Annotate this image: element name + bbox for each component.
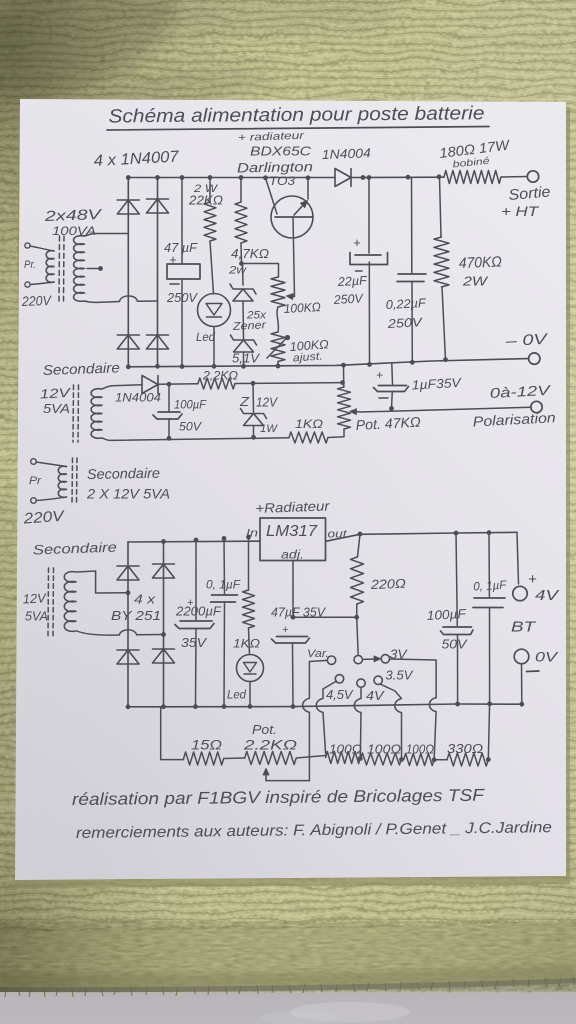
svg-text:Secondaire: Secondaire <box>87 465 160 482</box>
capacitor 47µF 250V <box>167 264 200 279</box>
resistor 15Ω <box>184 752 224 765</box>
label "25x" <box>246 310 267 322</box>
wire primary top lead <box>30 246 54 251</box>
junction rail-C bridge right <box>161 539 166 544</box>
resistor 100Ω #1 <box>326 752 361 764</box>
svg-text:1N4004: 1N4004 <box>322 145 371 162</box>
svg-text:0, 1µF: 0, 1µF <box>473 578 507 594</box>
wire bridge right leg <box>157 178 159 367</box>
resistor 100Ω #2 <box>360 753 401 765</box>
transformer T3 core <box>72 458 77 505</box>
svg-text:LM317: LM317 <box>266 523 318 540</box>
LED indicator <box>198 294 231 327</box>
svg-text:+: + <box>282 624 289 636</box>
svg-text:0, 1µF: 0, 1µF <box>206 578 241 592</box>
svg-text:0,22µF: 0,22µF <box>385 296 427 312</box>
wire 0,22uF bottom lead <box>411 282 413 363</box>
wire zener chain bottom <box>243 353 245 367</box>
wire 15Ω to pot <box>224 757 245 760</box>
junction LED2 bottom <box>248 704 253 709</box>
switch contact 4V <box>357 679 365 687</box>
junction 0,1uF-a bottom <box>222 704 227 709</box>
svg-text:1KΩ: 1KΩ <box>295 417 323 431</box>
diode D9 BY251 <box>153 649 175 663</box>
svg-text:12V: 12V <box>22 590 47 606</box>
svg-text:Pot.: Pot. <box>252 722 277 737</box>
label "12V" zener <box>256 395 278 410</box>
label "2w" <box>228 265 247 277</box>
resistor 22KΩ 2W <box>204 202 216 241</box>
svg-text:47µF 35V: 47µF 35V <box>271 606 327 620</box>
label "+Radiateur" <box>255 498 330 516</box>
svg-text:Secondaire: Secondaire <box>43 359 121 378</box>
label "220Ω" <box>369 576 406 592</box>
regulator U1 LM317 <box>260 518 326 561</box>
svg-text:100µF: 100µF <box>174 398 207 412</box>
label "35V" <box>181 635 207 650</box>
capacitor 0,22µF 250V <box>397 274 426 282</box>
label "15Ω" <box>191 737 222 753</box>
label "50V" middle <box>179 420 202 434</box>
junction 470K top <box>437 174 442 179</box>
svg-text:5VA: 5VA <box>43 401 70 416</box>
svg-text:220Ω: 220Ω <box>369 576 406 592</box>
label "5VA" T2 <box>43 401 70 416</box>
svg-text:+: + <box>528 571 537 588</box>
zener Z 12V 1W <box>241 409 267 426</box>
svg-text:330Ω: 330Ω <box>447 741 483 756</box>
junction bridge2 right mid <box>161 632 166 637</box>
wire 100uF-b top lead <box>456 533 457 627</box>
wire rail to 15Ω <box>161 707 184 760</box>
junction after diode <box>361 175 366 180</box>
label "100µF" middle <box>174 398 207 412</box>
label "Led" bottom <box>227 688 246 702</box>
terminal -0V <box>529 353 540 364</box>
label "1µF35V" <box>411 375 462 393</box>
junction 100uF-b bottom <box>455 702 460 707</box>
wire trimmer bottom <box>277 362 279 367</box>
junction 47uF top <box>180 175 185 180</box>
wire secondary top to bridge <box>85 234 129 237</box>
wire 4,5V tap <box>316 681 336 754</box>
label "47µF 35V" b <box>271 606 327 620</box>
label "100µF" b <box>426 606 467 623</box>
svg-text:250V: 250V <box>332 291 364 307</box>
transformer T1 secondary winding <box>74 236 85 302</box>
label "1KΩ" middle <box>295 417 323 431</box>
label "+" 47uF-b <box>282 624 289 636</box>
svg-text:4 x: 4 x <box>134 592 156 607</box>
svg-text:+Radiateur: +Radiateur <box>255 498 330 516</box>
junction rail-C 0,1uF <box>222 536 227 541</box>
svg-text:100VA: 100VA <box>52 226 96 238</box>
label "Var." <box>307 648 329 660</box>
junction bridge left top <box>126 175 131 180</box>
label "BT" <box>511 619 537 636</box>
junction chain 1 <box>358 756 363 761</box>
capacitor 47µF 35V b <box>272 637 310 644</box>
junction 4,7K / zener / pot <box>239 261 244 266</box>
wire 47uF-b bottom lead <box>292 643 295 707</box>
label "22KΩ" <box>188 194 224 208</box>
label "Secondaire" bottom <box>33 540 117 558</box>
terminal primary top <box>25 243 30 248</box>
wire 3.5V tap <box>380 684 402 760</box>
transformer T2 core <box>73 385 79 442</box>
svg-text:5,1V: 5,1V <box>232 351 260 366</box>
junction 0,22uF bottom <box>410 360 415 365</box>
svg-text:22KΩ: 22KΩ <box>188 194 224 208</box>
label "100KΩ" pot <box>283 300 321 316</box>
diode D5 1N4004 middle <box>142 376 158 394</box>
LED2 indicator <box>237 655 264 682</box>
transistor Q1 BDX65C <box>271 178 313 238</box>
label footer line 1 <box>72 786 486 809</box>
wire bridge2 right leg <box>163 542 165 707</box>
svg-text:220V: 220V <box>21 293 53 309</box>
terminal +4V <box>513 586 527 600</box>
resistor 2,2KΩ <box>198 378 235 389</box>
label "+ radiateur" <box>238 130 305 144</box>
wire center tap <box>87 268 99 270</box>
label "0à-12V" <box>489 382 552 401</box>
terminal primary bottom <box>25 282 30 287</box>
svg-text:2200µF: 2200µF <box>175 604 222 619</box>
capacitor 0,1µF b <box>473 598 505 608</box>
resistor 330Ω <box>447 753 488 766</box>
svg-text:2W: 2W <box>462 274 489 289</box>
table light streaks <box>290 1002 410 1022</box>
transformer T4 secondary winding <box>64 572 76 632</box>
junction pot47K top <box>341 363 346 368</box>
svg-text:250V: 250V <box>386 315 424 331</box>
junction bridge left bottom <box>126 364 131 369</box>
wire bottom rail <box>128 704 522 707</box>
label "2.2KΩ" <box>243 737 298 753</box>
label "250V" 22uF <box>332 291 364 307</box>
svg-text:2w: 2w <box>228 265 247 277</box>
transistor Q1 BDX65C base wire <box>266 178 278 214</box>
svg-text:3.5V: 3.5V <box>385 668 413 683</box>
capacitor 22µF 250V <box>350 253 388 272</box>
svg-text:50V: 50V <box>179 420 202 434</box>
wire switch common lead <box>357 617 359 655</box>
wire 0,22uF top lead <box>411 177 413 273</box>
potentiometer 47KΩ <box>338 387 351 429</box>
label "12V" T4 <box>22 590 47 606</box>
label "+ HT" <box>501 203 540 219</box>
svg-text:– 0V: – 0V <box>504 331 550 350</box>
label "Darlington" <box>237 159 313 175</box>
junction 22uF top <box>367 175 372 180</box>
wire 2200uF bottom lead <box>195 629 198 707</box>
label "12V" T2 <box>39 385 71 402</box>
wire T4 bottom lead (hop) <box>77 630 164 635</box>
label "100Ω" 3 <box>406 743 434 757</box>
label "Pr" T3 <box>29 475 42 487</box>
transformer T3 primary winding <box>58 466 66 497</box>
svg-text:Z: Z <box>239 394 250 409</box>
wire 1K top lead <box>248 537 250 590</box>
wire T2 bottom lead <box>102 438 289 441</box>
label "Pr." <box>24 259 36 271</box>
terminal 0V BT <box>514 649 529 664</box>
switch contact 3.5V <box>374 676 382 684</box>
label footer line 2 <box>76 819 553 842</box>
wire after D5 <box>158 383 198 386</box>
transformer T1 primary winding <box>46 251 54 283</box>
terminal T3 primary bottom <box>31 498 37 504</box>
svg-text:BDX65C: BDX65C <box>250 144 312 159</box>
label "1N4004" <box>322 145 371 162</box>
capacitor 100µF 50V middle <box>153 412 182 419</box>
junction 220R bottom <box>354 615 359 620</box>
wire 1uF bottom lead <box>391 392 394 409</box>
resistor 1KΩ middle <box>289 432 328 443</box>
trimmer 100KΩ ajust. <box>271 332 285 362</box>
wiper arrow pot47K <box>350 409 361 415</box>
label "4,5V" <box>326 687 354 702</box>
svg-text:Zener: Zener <box>231 319 267 333</box>
svg-text:0V: 0V <box>535 649 559 665</box>
junction zener bottom <box>241 364 246 369</box>
capacitor 0,1µF a <box>211 595 238 602</box>
wire 220R bottom lead <box>356 604 358 617</box>
wire 100uF bottom lead <box>168 419 170 438</box>
label "2W" 470K <box>462 274 489 289</box>
junction -12V node at pot <box>340 380 345 385</box>
label "Polarisation" <box>472 409 556 429</box>
wire zener Z top lead <box>252 383 255 412</box>
label "In" <box>246 528 258 540</box>
junction zener Z top <box>251 381 256 386</box>
wire rail to LM317 In <box>128 540 260 543</box>
diode D4 1N4007 <box>147 335 169 349</box>
label "- 0V" <box>504 331 550 350</box>
junction bridge2 left mid <box>126 590 131 595</box>
svg-text:12V: 12V <box>256 395 278 410</box>
junction 0,1uF-b top <box>487 530 492 535</box>
junction adj node <box>291 615 296 620</box>
wire 1K to LED <box>249 628 250 655</box>
wire Q1 emitter <box>287 217 295 299</box>
terminal polarisation <box>531 401 542 412</box>
towel wrinkle shadows <box>0 0 400 790</box>
svg-text:4,7KΩ: 4,7KΩ <box>231 246 269 261</box>
svg-text:4V: 4V <box>535 587 560 604</box>
svg-text:100Ω: 100Ω <box>367 743 402 757</box>
label "1KΩ" bottom <box>233 637 260 651</box>
terminal Sortie +HT <box>527 171 538 182</box>
wire 22uF bottom lead <box>368 262 370 364</box>
resistor 180Ω <box>444 171 501 184</box>
transformer T4 core <box>48 568 54 638</box>
label "BDX65C" <box>250 144 312 159</box>
label "bobiné" <box>452 156 490 171</box>
junction bridge2 right bottom <box>161 704 166 709</box>
junction 100uF bottom <box>167 436 172 441</box>
junction center tap <box>98 266 103 271</box>
junction rail-C 2200uF <box>194 538 199 543</box>
svg-text:+: + <box>376 368 383 382</box>
junction trimmer bottom <box>276 364 281 369</box>
wire 0V rail <box>128 359 528 367</box>
label "0V" terminal <box>535 649 559 665</box>
svg-text:Secondaire: Secondaire <box>33 540 117 558</box>
wire secondary bottom to bridge (hop over left leg) <box>85 296 158 303</box>
wire to +4V terminal <box>517 532 519 584</box>
wire pot47K top lead <box>343 365 345 387</box>
label "1N4004" middle <box>115 391 161 405</box>
junction chain 3 <box>432 757 437 762</box>
junction 1uF bottom <box>389 406 394 411</box>
svg-text:2x48V: 2x48V <box>43 207 103 225</box>
resistor 470KΩ 2W <box>434 237 449 287</box>
diode D3 1N4007 <box>117 335 139 349</box>
junction 4,7K top <box>239 175 244 180</box>
diode D1 1N4007 <box>117 200 139 214</box>
junction 0,22uF top <box>406 175 411 180</box>
capacitor 1µF 35V <box>374 386 409 392</box>
svg-text:adj.: adj. <box>281 548 304 562</box>
resistor 220Ω <box>351 557 364 604</box>
wire polarisation <box>361 407 531 412</box>
label "4V" contact <box>366 688 385 703</box>
wire top rail <box>128 176 444 178</box>
junction 470K bottom <box>443 357 448 362</box>
label "TO3" <box>269 176 296 188</box>
switch common contact <box>354 655 362 663</box>
diode D7 BY251 <box>153 564 175 578</box>
svg-text:2 X 12V 5VA: 2 X 12V 5VA <box>86 486 170 502</box>
svg-text:22µF: 22µF <box>336 273 368 289</box>
label "220V" T3 <box>22 508 66 528</box>
junction bridge right bottom <box>155 364 160 369</box>
wire 4V tap <box>354 687 361 759</box>
transformer T2 secondary winding <box>91 389 102 439</box>
svg-text:4,5V: 4,5V <box>326 687 354 702</box>
junction rail-C 1K <box>246 535 251 540</box>
label "2x48V" <box>43 207 103 225</box>
label "47 µF" <box>164 240 198 255</box>
wire 0,1uF-b bottom lead <box>489 608 491 704</box>
svg-text:4V: 4V <box>366 688 385 703</box>
junction bridge2 left bottom <box>126 704 131 709</box>
label "250V" 0,22uF <box>386 315 424 331</box>
label "50V" b <box>442 638 469 652</box>
label "100Ω" 1 <box>329 743 363 757</box>
wire Var to wiper <box>303 660 328 780</box>
wire LED bottom <box>213 327 215 367</box>
label "100KΩ" ajust <box>289 337 329 354</box>
wire 22K to LED <box>210 241 214 294</box>
label "2200µF" <box>175 604 222 619</box>
label "Zener" <box>231 319 267 333</box>
svg-text:Pr.: Pr. <box>24 259 36 271</box>
wire 4,7K top lead <box>240 178 242 203</box>
wire 2200uF top lead <box>195 540 197 621</box>
diode 1N4004 series <box>335 169 351 187</box>
switch contact 4,5V <box>335 675 343 683</box>
label title "Schéma alimentation pour poste batterie" <box>107 103 489 130</box>
svg-text:220V: 220V <box>22 508 66 528</box>
label "Secondaire" middle <box>43 359 121 378</box>
diode D6 BY251 <box>117 566 139 580</box>
wire T3 bottom lead <box>36 497 67 501</box>
svg-text:1µF35V: 1µF35V <box>411 375 462 393</box>
label "Pot. 47KΩ" <box>355 414 421 433</box>
svg-text:Schéma alimentation pour poste: Schéma alimentation pour poste batterie <box>108 103 484 127</box>
svg-text:100Ω: 100Ω <box>329 743 363 757</box>
wire to Sortie terminal <box>501 176 527 179</box>
junction collector top <box>306 175 311 180</box>
wire zener Z bottom lead <box>253 426 255 438</box>
junction 100uF-b top <box>454 531 459 536</box>
label "5,1V" <box>232 351 260 366</box>
wire T3 top lead <box>36 462 67 467</box>
label "3.5V" <box>385 668 413 683</box>
svg-text:Darlington: Darlington <box>237 159 313 175</box>
svg-text:100Ω: 100Ω <box>406 743 434 757</box>
capacitor 2200µF 35V <box>175 621 214 629</box>
svg-text:ajust.: ajust. <box>292 350 323 364</box>
capacitor 100µF 50V b <box>441 627 474 635</box>
terminal T3 primary top <box>31 459 37 465</box>
switch contact Var <box>327 656 335 664</box>
wire 22uF top lead <box>368 178 370 254</box>
label "-" 1uF <box>379 397 388 399</box>
wire 220R top lead <box>358 534 361 557</box>
svg-text:1N4004: 1N4004 <box>115 391 161 405</box>
wire 0,1uF-b top lead <box>488 533 490 598</box>
svg-text:BY 251: BY 251 <box>111 608 161 623</box>
svg-text:12V: 12V <box>39 385 71 402</box>
label "470KΩ" <box>459 254 503 272</box>
wire 2,2K to pot <box>235 382 343 385</box>
label "4V" terminal <box>535 587 560 604</box>
junction LED bottom <box>212 364 217 369</box>
wire 470K top lead <box>440 177 442 237</box>
svg-text:Led: Led <box>196 332 216 344</box>
svg-text:+ HT: + HT <box>501 203 540 219</box>
transformer T1 core <box>59 236 64 301</box>
label "ajust." <box>292 350 323 364</box>
wire chain to 330Ω <box>434 759 447 761</box>
junction 100uF top <box>167 382 172 387</box>
label "Pot." <box>252 722 277 737</box>
label "4 x 1N4007" <box>93 149 180 170</box>
label "2,2KΩ" <box>202 369 238 383</box>
paper shadow <box>17 104 570 888</box>
label "180Ω 17W" <box>438 136 511 161</box>
wire 47uF branch top <box>181 178 183 264</box>
svg-text:2.2KΩ: 2.2KΩ <box>243 737 298 753</box>
label "Led" <box>196 332 216 344</box>
label "330Ω" <box>447 741 483 756</box>
svg-text:Var.: Var. <box>307 648 329 660</box>
wire zener middle <box>242 302 245 340</box>
diode D2 1N4007 <box>147 199 169 213</box>
svg-text:1W: 1W <box>260 423 279 435</box>
wire 1K to pot bottom <box>328 429 344 438</box>
junction 47uF bottom <box>180 364 185 369</box>
label "out" <box>328 529 348 541</box>
schematic drawing <box>21 103 561 842</box>
svg-text:100µF: 100µF <box>426 606 467 623</box>
wire 22K top lead <box>209 178 211 203</box>
wire 47uF branch bottom <box>181 279 183 367</box>
